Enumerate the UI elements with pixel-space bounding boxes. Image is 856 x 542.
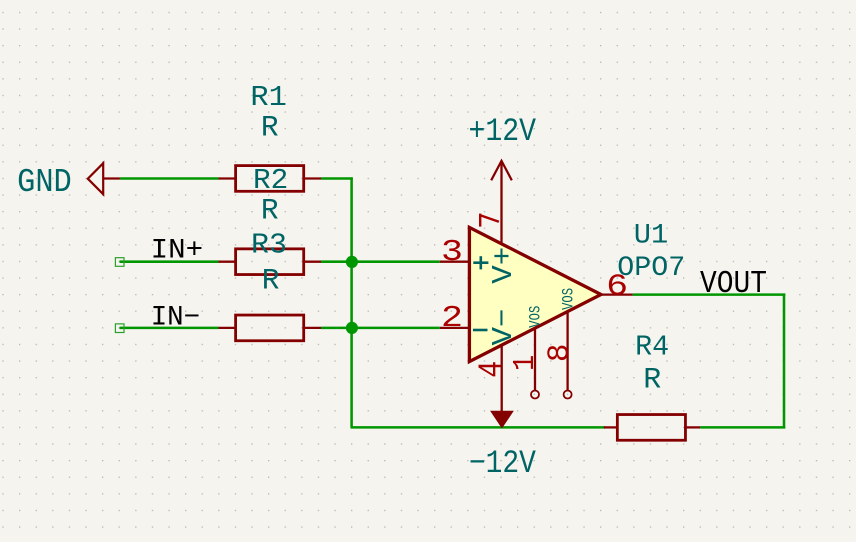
svg-text:−12V: −12V xyxy=(469,445,537,482)
pin 2 xyxy=(440,327,470,329)
unconnected pin 8 circle xyxy=(564,391,572,399)
svg-text:VOS: VOS xyxy=(527,306,545,328)
svg-text:R: R xyxy=(261,194,279,228)
dangling wire end IN+ xyxy=(115,258,124,267)
svg-text:VOS: VOS xyxy=(560,288,578,310)
op-amp U1 body xyxy=(469,227,601,361)
svg-text:V−: V− xyxy=(487,309,520,346)
power symbol -12V xyxy=(491,411,513,427)
wire GND row xyxy=(120,177,219,180)
unconnected pin 1 circle xyxy=(531,391,539,399)
svg-text:+12V: +12V xyxy=(469,113,537,150)
wire output VOUT xyxy=(633,293,786,296)
svg-text:1: 1 xyxy=(508,355,543,371)
svg-text:R1: R1 xyxy=(250,81,287,114)
svg-text:2: 2 xyxy=(441,301,463,336)
svg-text:R: R xyxy=(261,111,279,145)
wire R1 right to vertical bus xyxy=(321,177,353,180)
pin 7 V+ xyxy=(500,161,502,244)
svg-text:R: R xyxy=(643,363,661,397)
svg-text:V+: V+ xyxy=(487,247,520,284)
svg-text:U1: U1 xyxy=(634,221,669,252)
pin 4 V- xyxy=(501,345,503,413)
junction at R2 output node xyxy=(346,256,358,268)
junction at R3 output node xyxy=(346,322,358,334)
wire R2 to pin 3 xyxy=(321,260,440,263)
wire IN+ to R2 xyxy=(120,260,219,263)
pin 1 VOS xyxy=(534,328,536,390)
resistor R3 xyxy=(219,315,322,341)
svg-text:GND: GND xyxy=(17,164,72,201)
svg-text:R3: R3 xyxy=(251,229,287,262)
pin name + of pin 3 xyxy=(473,256,488,269)
pin 6 output xyxy=(601,293,633,295)
svg-text:IN−: IN− xyxy=(151,303,201,334)
svg-text:4: 4 xyxy=(474,361,511,378)
power symbol +12V xyxy=(491,161,512,180)
wire bottom left xyxy=(351,426,605,429)
wire right vertical xyxy=(783,294,786,429)
wire R3 to pin 2 xyxy=(321,327,440,330)
resistor R4 xyxy=(604,415,700,441)
svg-text:R2: R2 xyxy=(253,164,288,197)
wire bottom right xyxy=(700,426,785,429)
dangling wire end IN- xyxy=(115,324,124,333)
svg-text:3: 3 xyxy=(441,235,463,270)
pin number 7 xyxy=(480,214,499,227)
resistor R2 xyxy=(219,249,322,275)
pin 3 xyxy=(440,261,470,263)
svg-text:8: 8 xyxy=(542,343,577,362)
svg-text:VOUT: VOUT xyxy=(700,267,767,302)
power symbol GND xyxy=(88,163,120,194)
wire IN- to R3 xyxy=(120,327,219,330)
pin name - of pin 2 xyxy=(473,329,488,332)
svg-text:R4: R4 xyxy=(635,331,669,364)
svg-text:6: 6 xyxy=(606,270,628,305)
pin 8 VOS xyxy=(566,312,568,391)
wire left vertical xyxy=(350,177,353,427)
svg-text:IN+: IN+ xyxy=(151,235,204,266)
resistor R1 xyxy=(219,166,322,192)
svg-text:R: R xyxy=(262,263,280,297)
